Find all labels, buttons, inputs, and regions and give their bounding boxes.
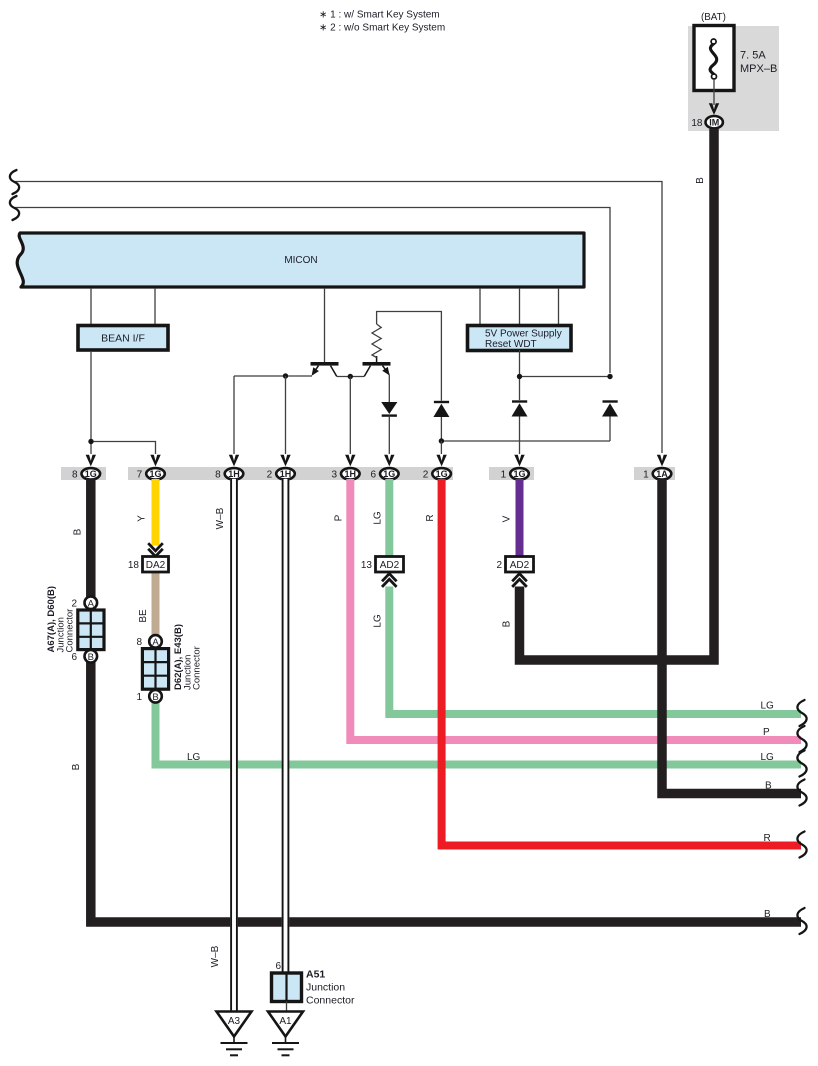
diode D3 (1 1G) bbox=[512, 400, 527, 402]
connector 1G bbox=[510, 468, 529, 479]
wire resistor to node bbox=[377, 312, 442, 401]
svg-text:LG: LG bbox=[761, 701, 775, 712]
BEAN I/F box bbox=[78, 326, 168, 351]
wire LG from D62 B bbox=[156, 702, 802, 765]
svg-text:LG: LG bbox=[373, 511, 384, 525]
junction dot bbox=[607, 374, 612, 379]
svg-text:∗ 1 : w/ Smart Key System: ∗ 1 : w/ Smart Key System bbox=[319, 10, 440, 21]
break squiggle LG wire bbox=[797, 751, 806, 777]
wire B from IM to AD2 bbox=[520, 129, 715, 660]
wire MICON to BEAN I/F pin2 bbox=[154, 288, 156, 324]
wire V violet from 1 1G bbox=[516, 479, 524, 557]
wire MICON to 5V box b bbox=[519, 288, 521, 324]
svg-text:∗ 2 : w/o Smart Key System: ∗ 2 : w/o Smart Key System bbox=[319, 23, 445, 34]
svg-text:8: 8 bbox=[215, 470, 221, 481]
connector AD2 (2) bbox=[506, 557, 534, 573]
arrow into connector 2 1G bbox=[436, 455, 446, 467]
break squiggle R wire bbox=[797, 832, 806, 858]
connector 1G bbox=[82, 468, 101, 479]
diode D4 (node 610) bbox=[603, 400, 618, 402]
wire MICON to 5V box a bbox=[479, 288, 481, 324]
break squiggle P wire bbox=[797, 726, 806, 752]
svg-text:1H: 1H bbox=[228, 469, 240, 479]
svg-text:1: 1 bbox=[643, 470, 649, 481]
wire MICON to BEAN I/F pin1 bbox=[90, 288, 92, 324]
wire B from 1A bbox=[662, 479, 801, 794]
svg-text:A3: A3 bbox=[228, 1016, 241, 1027]
arrow into connector 6 1G bbox=[384, 455, 394, 467]
arrow into connector 8 1G bbox=[86, 455, 96, 467]
svg-text:2: 2 bbox=[496, 560, 502, 571]
svg-text:B: B bbox=[764, 909, 771, 920]
wire to 2 1H bbox=[285, 376, 287, 454]
svg-text:AD2: AD2 bbox=[380, 560, 400, 571]
arrow into IM bbox=[709, 103, 719, 115]
svg-text:LG: LG bbox=[373, 614, 384, 628]
svg-text:IM: IM bbox=[709, 118, 719, 128]
svg-text:V: V bbox=[502, 515, 513, 522]
wire bus 2 bbox=[15, 208, 610, 374]
wire LG from AD2 to right edge bbox=[389, 587, 801, 715]
arrow into connector 7 1G bbox=[150, 455, 160, 467]
junction connector A67 bbox=[85, 597, 98, 610]
resistor R1 bbox=[372, 324, 381, 358]
wire Q2 emitter to diode D1 bbox=[388, 375, 390, 403]
svg-text:7: 7 bbox=[137, 470, 143, 481]
fuse block shading bbox=[688, 26, 779, 131]
junction dot 2-1H bbox=[283, 373, 288, 378]
svg-text:W–B: W–B bbox=[210, 945, 221, 967]
svg-text:Junction: Junction bbox=[306, 982, 345, 994]
svg-text:1G: 1G bbox=[383, 469, 395, 479]
svg-text:Connector: Connector bbox=[306, 995, 355, 1007]
svg-text:1: 1 bbox=[501, 470, 507, 481]
svg-text:R: R bbox=[764, 833, 771, 844]
wire to 3 1H bbox=[349, 377, 351, 455]
svg-text:Connector: Connector bbox=[192, 646, 203, 690]
svg-text:1G: 1G bbox=[149, 469, 161, 479]
transistor Q2 bbox=[363, 356, 391, 377]
svg-text:R: R bbox=[425, 514, 436, 521]
svg-text:1H: 1H bbox=[280, 469, 292, 479]
wire W-B right (2 1H to A51) bbox=[282, 479, 290, 974]
wire B from 8 1G via A67 bbox=[91, 479, 801, 922]
svg-text:2: 2 bbox=[71, 599, 77, 610]
svg-text:Reset WDT: Reset WDT bbox=[485, 339, 537, 350]
svg-text:3: 3 bbox=[331, 470, 337, 481]
fuse element bbox=[710, 44, 717, 75]
svg-text:B: B bbox=[73, 528, 84, 535]
fuse 7.5A MPX-B box bbox=[694, 26, 734, 91]
wire MICON to transistor Q1 bbox=[324, 288, 326, 363]
arrow into connector 1 1A bbox=[657, 455, 667, 467]
svg-text:18: 18 bbox=[691, 118, 703, 129]
svg-text:W–B: W–B bbox=[215, 507, 226, 529]
junction connector D62 bbox=[149, 635, 162, 648]
wire MICON to 5V box c bbox=[558, 288, 560, 324]
svg-text:B: B bbox=[152, 692, 158, 703]
svg-text:8: 8 bbox=[72, 470, 78, 481]
svg-text:A51: A51 bbox=[306, 969, 325, 981]
svg-text:MPX–B: MPX–B bbox=[740, 63, 777, 75]
node wire 441-610 bbox=[441, 440, 610, 442]
svg-text:Y: Y bbox=[137, 515, 148, 522]
connector 1G bbox=[146, 468, 165, 479]
arrow into AD2 (2) bbox=[512, 574, 527, 587]
connector band bbox=[61, 467, 106, 480]
svg-text:AD2: AD2 bbox=[510, 560, 530, 571]
svg-text:(BAT): (BAT) bbox=[701, 12, 726, 23]
connector AD2 (13) bbox=[376, 557, 404, 573]
svg-text:13: 13 bbox=[361, 560, 373, 571]
svg-text:A: A bbox=[152, 637, 159, 648]
ground A1 bbox=[268, 1012, 303, 1037]
wire BE beige DA2 to D62 bbox=[152, 571, 160, 638]
svg-text:B: B bbox=[695, 177, 706, 184]
wire A51 to A1 bbox=[286, 1002, 288, 1013]
junction dot bbox=[517, 374, 522, 379]
connector DA2 bbox=[143, 557, 169, 573]
svg-text:BE: BE bbox=[138, 609, 149, 623]
arrow into connector 3 1H bbox=[345, 455, 355, 467]
wire fuse to IM bbox=[713, 79, 715, 105]
break squiggle B wire bbox=[797, 780, 806, 806]
break squiggle LG wire bbox=[797, 700, 806, 726]
svg-text:1G: 1G bbox=[85, 469, 97, 479]
svg-text:1G: 1G bbox=[436, 469, 448, 479]
svg-text:7. 5A: 7. 5A bbox=[740, 50, 766, 62]
svg-text:2: 2 bbox=[267, 470, 273, 481]
junction dot 3-1H bbox=[348, 374, 353, 379]
svg-text:DA2: DA2 bbox=[146, 560, 166, 571]
emitter bus wire bbox=[234, 375, 312, 377]
arrow into connector 8 1H bbox=[229, 455, 239, 467]
arrow into connector 2 1H bbox=[280, 455, 290, 467]
wire P pink from 3 1H bbox=[350, 479, 801, 740]
diode D1 (to 6 1G) bbox=[381, 402, 397, 414]
svg-text:1A: 1A bbox=[656, 469, 668, 479]
transistor Q1 bbox=[311, 362, 339, 377]
svg-text:LG: LG bbox=[187, 752, 201, 763]
svg-text:LG: LG bbox=[761, 752, 775, 763]
ground A3 bbox=[217, 1012, 252, 1037]
svg-text:B: B bbox=[88, 652, 94, 663]
svg-text:6: 6 bbox=[370, 470, 376, 481]
svg-text:2: 2 bbox=[423, 470, 429, 481]
wire R red from 2 1G bbox=[442, 479, 801, 846]
MICON box bbox=[17, 233, 584, 287]
svg-text:A1: A1 bbox=[279, 1016, 292, 1027]
wire bus 1 bbox=[15, 182, 662, 454]
diode D2 (node 441) bbox=[434, 401, 449, 403]
break squiggle B wire bbox=[797, 908, 806, 934]
break squiggle 2 bbox=[10, 196, 19, 220]
connector 1G bbox=[380, 468, 399, 479]
5V Power Supply Reset WDT box bbox=[468, 326, 572, 351]
svg-text:6: 6 bbox=[275, 961, 281, 972]
arrow into AD2 (13) bbox=[382, 574, 397, 587]
svg-text:P: P bbox=[763, 727, 770, 738]
junction dot bbox=[88, 439, 93, 444]
connector 1H bbox=[225, 468, 244, 479]
node wire 519-610 bbox=[520, 376, 611, 378]
svg-text:18: 18 bbox=[128, 560, 140, 571]
wire Y yellow from 7 1G bbox=[152, 479, 160, 546]
connector 1H bbox=[276, 468, 295, 479]
arrow into DA2 bbox=[148, 543, 163, 556]
break squiggle 1 bbox=[10, 170, 19, 194]
svg-text:B: B bbox=[502, 620, 513, 627]
connector 1G bbox=[432, 468, 451, 479]
svg-text:6: 6 bbox=[71, 652, 77, 663]
svg-text:B: B bbox=[71, 763, 82, 770]
wire W-B left (8 1H to A3) bbox=[230, 479, 238, 1012]
svg-text:B: B bbox=[765, 781, 772, 792]
svg-text:P: P bbox=[334, 514, 345, 521]
svg-text:1H: 1H bbox=[345, 469, 357, 479]
wire LG from 6 1G upper part bbox=[385, 479, 393, 557]
arrow into connector 1 1G bbox=[514, 455, 524, 467]
svg-text:1G: 1G bbox=[513, 469, 525, 479]
svg-text:8: 8 bbox=[136, 637, 142, 648]
wire 5V box to diode D3 bbox=[519, 350, 521, 400]
svg-text:Connector: Connector bbox=[65, 609, 76, 653]
svg-text:A: A bbox=[88, 598, 95, 609]
svg-text:1: 1 bbox=[136, 692, 142, 703]
svg-text:BEAN I/F: BEAN I/F bbox=[101, 333, 145, 345]
connector 1H bbox=[341, 468, 360, 479]
connector IM bbox=[706, 116, 723, 128]
svg-text:MICON: MICON bbox=[284, 255, 317, 266]
connector 1A bbox=[653, 468, 672, 479]
svg-text:5V Power Supply: 5V Power Supply bbox=[485, 329, 562, 340]
wire BEAN I/F to 1G pins bbox=[90, 351, 92, 442]
